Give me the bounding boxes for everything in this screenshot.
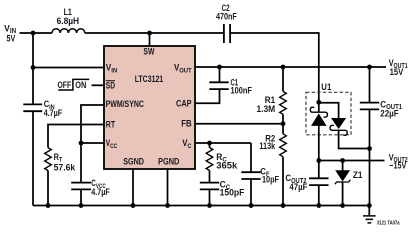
wire VIN input to L1 (20, 32, 53, 34)
wire U1 internal node to bridge (319, 103, 339, 119)
svg-text:PGND: PGND (158, 156, 179, 166)
capacitor COUT2 (309, 178, 328, 185)
svg-text:SD: SD (106, 80, 115, 90)
svg-text:10pF: 10pF (262, 175, 279, 185)
svg-text:22µF: 22µF (380, 109, 398, 120)
node diode/COUT1 gnd (367, 146, 372, 151)
wire FB node to R2 (282, 124, 284, 134)
wire CVCC to ground rail (80, 189, 82, 205)
zener Z1 (336, 171, 349, 181)
inductor L1 (52, 29, 85, 33)
node VOUT2/Z1 (340, 158, 345, 163)
wire COUT1 top (369, 67, 371, 103)
wire U1 right diode to gnd column (339, 130, 370, 148)
wire U1 left diode to VOUT2 rail (318, 125, 320, 160)
wire Z1 top (342, 161, 344, 172)
wire R2 to ground rail (282, 157, 284, 206)
node VOUT2/COUT2 (316, 158, 321, 163)
wire FB pin (195, 123, 283, 125)
node VC/RC (207, 141, 212, 146)
IC LTC3121 body (104, 46, 195, 169)
svg-text:−15V: −15V (389, 161, 406, 172)
wire PWM/SYNC pin (81, 105, 105, 183)
wire VC pin (195, 142, 251, 144)
node gnd corner (367, 203, 372, 208)
wire VOUT1 rail (195, 66, 386, 68)
node VIN top (31, 31, 36, 36)
svg-text:SGND: SGND (123, 156, 144, 166)
svg-text:RT: RT (106, 119, 116, 129)
svg-text:57.6k: 57.6k (54, 162, 76, 172)
wire CF to ground rail (250, 179, 252, 206)
svg-text:4.7µF: 4.7µF (91, 187, 110, 197)
wire VOUT2 rail (319, 160, 385, 162)
wire SW pin stub (149, 33, 151, 46)
svg-text:U1: U1 (321, 82, 331, 92)
wire CC to ground rail (209, 189, 211, 205)
node VIN pin T (31, 65, 36, 70)
node gnd CC (207, 203, 212, 208)
wire COUT1 to gnd node (369, 109, 371, 148)
wire VIN vertical rail x=33 (32, 33, 34, 104)
node VOUT/R1 (281, 65, 286, 70)
svg-text:3121 TA07a: 3121 TA07a (377, 221, 400, 227)
svg-text:365k: 365k (216, 160, 238, 170)
diode U1 right (schottky, cathode down) (332, 119, 345, 128)
svg-text:OFF: OFF (58, 80, 72, 90)
resistor R1 (280, 91, 287, 114)
node VOUT/C1 (217, 65, 222, 70)
svg-text:5V: 5V (7, 33, 16, 44)
wire RC to CC (209, 170, 211, 182)
wire SD pin (92, 84, 105, 86)
wire CF top (250, 143, 252, 172)
svg-text:LTC3121: LTC3121 (135, 74, 164, 84)
wire Z1 to ground rail (342, 182, 344, 206)
capacitor COUT1 (360, 103, 379, 110)
wire VCC pin (81, 142, 105, 144)
capacitor CF (241, 172, 260, 179)
svg-text:4.7µF: 4.7µF (44, 108, 63, 118)
node VOUT/COUT1 (367, 65, 372, 70)
node gnd CF (249, 203, 254, 208)
wire gnd node down crossing VOUT2 rail (369, 149, 371, 206)
svg-text:Z1: Z1 (353, 170, 363, 180)
wire R1 to FB node (282, 114, 284, 123)
IC pin labels (106, 47, 193, 167)
ground symbol (368, 206, 370, 216)
wire CIN to ground rail (32, 111, 34, 205)
node SW (147, 31, 152, 36)
node gnd CVCC (79, 203, 84, 208)
resistor R2 (280, 134, 287, 157)
svg-text:150pF: 150pF (220, 187, 245, 197)
wire C1 top (219, 67, 221, 82)
capacitor C1 (209, 82, 228, 89)
svg-text:6.8µH: 6.8µH (57, 16, 80, 26)
svg-text:470nF: 470nF (216, 11, 237, 21)
node gnd COUT2 (316, 203, 321, 208)
node gnd RT (46, 203, 51, 208)
resistor RT (45, 148, 52, 171)
svg-text:113k: 113k (259, 141, 276, 151)
wire L1 to SW node to C2 (85, 32, 224, 34)
wire R1 top (282, 67, 284, 91)
node U1 internal (316, 100, 321, 105)
wire PGND stub (167, 169, 169, 206)
capacitor CVCC (71, 183, 91, 190)
svg-text:PWM/SYNC: PWM/SYNC (106, 99, 145, 109)
wire C2 to U1 column (230, 33, 318, 102)
capacitor CC (200, 183, 219, 190)
resistor RC (206, 148, 213, 171)
svg-text:1.3M: 1.3M (257, 104, 276, 114)
node gnd SGND (131, 203, 136, 208)
U1 dashed box (306, 92, 351, 135)
wire RC top (209, 143, 211, 148)
OFF/ON step symbol (58, 79, 89, 90)
node gnd PGND (165, 203, 170, 208)
wire COUT2 top (318, 161, 320, 179)
capacitor CIN (23, 104, 42, 111)
wire RT to ground rail (47, 171, 49, 206)
node gnd Z1 (340, 203, 345, 208)
wire COUT2 to ground rail (318, 185, 320, 205)
ground rail (33, 205, 369, 207)
wire SGND stub (132, 169, 134, 206)
svg-text:CAP: CAP (176, 98, 192, 108)
wire CAP pin to C1 (195, 89, 220, 103)
node FB (281, 121, 286, 126)
svg-text:FB: FB (181, 118, 192, 128)
svg-text:ON: ON (75, 80, 86, 90)
svg-text:47µF: 47µF (289, 182, 307, 193)
svg-text:15V: 15V (390, 67, 404, 78)
capacitor C2 (224, 24, 230, 43)
svg-text:100nF: 100nF (231, 86, 253, 96)
svg-text:SW: SW (143, 47, 154, 57)
wire RT pin (48, 125, 105, 148)
node VCC/PWM (79, 141, 84, 146)
diode U1 left (schottky, cathode up) (318, 102, 320, 113)
node gnd R2 (281, 203, 286, 208)
wire VIN pin (33, 67, 105, 69)
